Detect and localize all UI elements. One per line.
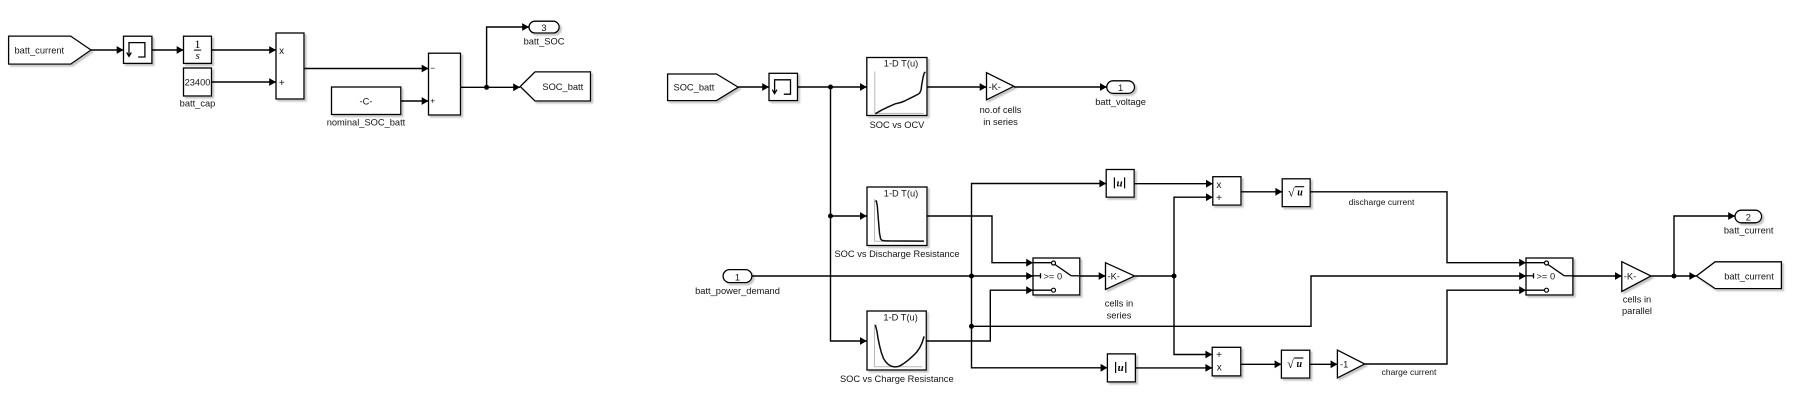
svg-text:x: x [279,46,284,57]
wire gain to junction [1135,275,1174,277]
outport 3 [529,21,559,33]
gain cells in parallel -K- [1622,262,1651,292]
wire branch to outport 3 [487,23,529,87]
svg-text:SOC_batt: SOC_batt [674,83,715,93]
wire Abs1 to Divide1 x [1135,364,1212,372]
wire Divide1 to Sqrt1 [1241,360,1282,368]
junction node discharge branch [828,214,833,219]
svg-text:3: 3 [541,23,546,33]
svg-text:u: u [1118,362,1124,374]
svg-text:1: 1 [1118,83,1123,93]
svg-text:batt_SOC: batt_SOC [524,36,565,46]
memory block Memory1 [769,73,798,100]
svg-text:SOC vs OCV: SOC vs OCV [870,120,926,130]
junction node resistance [1172,274,1177,279]
svg-text:−: − [430,63,435,73]
outport tag batt_current [1696,262,1781,289]
svg-text:s: s [196,50,200,62]
svg-text:u: u [1297,188,1303,199]
wire Divide to Sqrt [1241,188,1282,196]
svg-text:batt_power_demand: batt_power_demand [695,286,780,296]
wire resistance up to Divide divide [1174,193,1213,276]
svg-text:series: series [1107,310,1132,320]
constant batt_cap 23400 [184,68,212,96]
svg-text:batt_current: batt_current [1724,225,1774,235]
outport 1 batt_voltage [1107,81,1135,94]
sqrt block Sqrt1 [1281,350,1309,378]
wire power demand down to Abs1 [972,276,1108,372]
wire resistance down to Divide1 divide [1174,276,1212,358]
svg-text:1-D T(u): 1-D T(u) [884,59,918,69]
svg-text:SOC_batt: SOC_batt [542,82,583,92]
constant nominal_SOC_batt -C- [332,87,401,115]
svg-text:+: + [1216,193,1222,204]
wire power demand to Switch1 control [972,272,1527,326]
svg-text:√: √ [1287,357,1294,371]
gain -1 [1337,350,1364,378]
wire batt_cap to Product divide [212,78,277,86]
svg-text:-K-: -K- [1624,272,1636,282]
wire power demand up to Abs [972,180,1107,276]
junction node at Subtract output [484,85,489,90]
product block Divide1 [276,33,304,99]
wire Memory1 to SOC vs OCV [798,83,867,91]
gain cells in series -K- [1106,263,1135,290]
lookup table SOC vs Discharge Resistance [867,187,927,246]
wire charge current to Switch1 input 3 [1365,286,1526,364]
lookup table SOC vs OCV [867,58,927,116]
svg-text:u: u [1297,359,1303,370]
svg-text:cells in: cells in [1105,299,1133,309]
svg-text:batt_current: batt_current [15,46,65,56]
svg-text:charge current: charge current [1382,367,1437,377]
wire batt_current to Memory [91,46,124,54]
svg-text:1-D T(u): 1-D T(u) [884,189,918,199]
junction node power demand lower [969,324,974,329]
wire nominal_SOC_batt to Sum plus [401,97,429,105]
switch block Switch [1033,258,1080,295]
wire SOC vs OCV to gain [927,83,987,91]
svg-text:x: x [1217,363,1222,374]
product block Divide (discharge) [1213,177,1241,205]
wire SOC_batt to Memory1 [738,83,769,91]
integrator block 1/s [184,36,212,63]
svg-text:-K-: -K- [1108,272,1120,282]
wire Subtract to SOC_batt tag [461,83,521,91]
svg-text:>= 0: >= 0 [1044,272,1063,282]
svg-text:batt_current: batt_current [1724,272,1774,282]
inport 1 batt_power_demand [723,270,752,283]
junction node power demand [969,274,974,279]
wire Sqrt1 to gain -1 [1310,360,1338,368]
gain no.of cells in series -K- [987,73,1014,100]
svg-text:SOC vs Discharge Resistance: SOC vs Discharge Resistance [834,249,959,259]
svg-text:1-D T(u): 1-D T(u) [883,313,917,323]
wire discharge lookup to Switch input 1 [927,216,1033,267]
switch block Switch1 [1526,258,1573,295]
wire Divide1 to Sum minus [304,65,429,73]
svg-text:SOC vs Charge Resistance: SOC vs Charge Resistance [840,374,954,384]
svg-text:-K-: -K- [989,82,1001,92]
svg-text:cells in: cells in [1623,295,1651,305]
svg-text:batt_voltage: batt_voltage [1095,97,1146,107]
svg-text:x: x [1216,180,1221,191]
wire Integrator to Product x [212,46,277,54]
svg-text:+: + [1216,350,1222,361]
svg-text:1: 1 [735,272,740,282]
sum block Subtract [429,53,461,115]
wire gain to batt_current tag [1651,272,1696,280]
wire Switch to gain cells in series [1080,272,1106,280]
abs block |u| [1106,170,1134,198]
svg-text:discharge current: discharge current [1349,197,1415,207]
svg-text:2: 2 [1746,213,1751,223]
wire Abs to Divide x [1134,180,1213,188]
svg-text:-1: -1 [1340,360,1348,370]
svg-text:in series: in series [983,117,1018,127]
wire Memory to Integrator [152,46,184,54]
svg-text:+: + [430,96,435,106]
svg-text:>= 0: >= 0 [1537,272,1556,282]
wire Switch1 to gain cells in parallel [1573,272,1622,280]
outport 2 [1735,210,1762,223]
outport tag SOC_batt [520,72,590,101]
svg-text:-C-: -C- [360,96,373,106]
svg-text:√: √ [1288,186,1295,200]
memory block Memory [124,36,152,63]
svg-text:u: u [1116,178,1122,190]
abs block |u|1 [1107,354,1135,382]
product block Divide1 (charge) [1212,347,1241,376]
lookup table SOC vs Charge Resistance [867,311,926,370]
wire branch to outport 2 [1674,212,1735,276]
svg-text:23400: 23400 [185,77,211,87]
sqrt block Sqrt [1282,179,1310,207]
svg-text:parallel: parallel [1622,306,1652,316]
junction node batt_current [1672,274,1677,279]
wire gain to outport 1 [1014,83,1107,91]
wire charge lookup to Switch input 3 [926,286,1033,341]
svg-text:+: + [279,78,285,89]
wire SOC down to charge lookup [831,216,867,345]
svg-text:batt_cap: batt_cap [180,99,216,109]
wire discharge current to Switch1 input 1 [1310,192,1526,267]
inport tag SOC_batt [668,74,739,101]
junction node SOC line [828,85,833,90]
svg-text:no.of cells: no.of cells [980,105,1022,115]
svg-text:nominal_SOC_batt: nominal_SOC_batt [327,118,406,128]
wire batt_power_demand to Switch control [752,272,1033,280]
inport tag batt_current [9,36,91,64]
wire SOC down to discharge lookup [831,87,867,220]
